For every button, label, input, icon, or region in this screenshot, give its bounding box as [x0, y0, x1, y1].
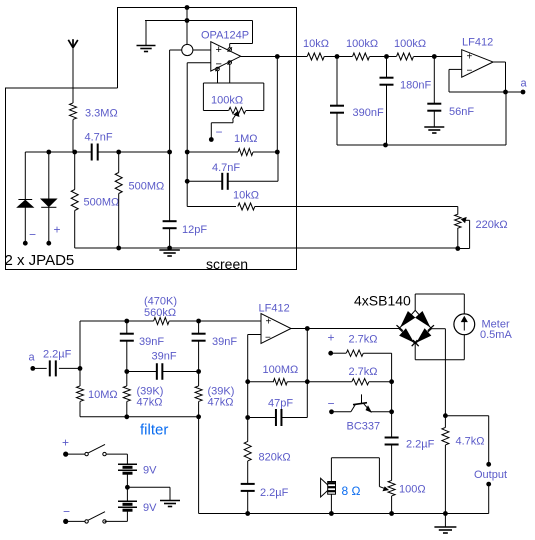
- svg-text:220kΩ: 220kΩ: [476, 219, 508, 231]
- svg-text:500MΩ: 500MΩ: [129, 181, 165, 193]
- svg-text:OPA124P: OPA124P: [201, 30, 249, 42]
- svg-text:BC337: BC337: [347, 421, 381, 433]
- svg-text:10kΩ: 10kΩ: [233, 190, 259, 202]
- svg-text:2.7kΩ: 2.7kΩ: [349, 334, 378, 346]
- svg-text:+: +: [62, 436, 69, 450]
- svg-text:100kΩ: 100kΩ: [211, 95, 243, 107]
- svg-text:47pF: 47pF: [268, 398, 293, 410]
- svg-text:10MΩ: 10MΩ: [88, 389, 118, 401]
- svg-text:100Ω: 100Ω: [399, 484, 426, 496]
- svg-text:+: +: [467, 52, 473, 63]
- svg-text:12pF: 12pF: [182, 224, 207, 236]
- svg-text:screen: screen: [206, 256, 248, 272]
- svg-text:100kΩ: 100kΩ: [346, 38, 378, 50]
- svg-text:39nF: 39nF: [212, 336, 237, 348]
- svg-text:500MΩ: 500MΩ: [84, 197, 120, 209]
- svg-text:180nF: 180nF: [400, 80, 431, 92]
- svg-text:2.2µF: 2.2µF: [260, 487, 289, 499]
- svg-text:2.2µF: 2.2µF: [43, 349, 72, 361]
- svg-text:100kΩ: 100kΩ: [394, 38, 426, 50]
- svg-text:+: +: [216, 44, 222, 56]
- svg-text:390nF: 390nF: [353, 107, 384, 119]
- svg-text:47kΩ: 47kΩ: [208, 397, 234, 409]
- svg-text:−: −: [328, 397, 335, 411]
- svg-text:56nF: 56nF: [449, 106, 474, 118]
- svg-text:−: −: [265, 333, 271, 344]
- svg-text:4.7kΩ: 4.7kΩ: [456, 436, 485, 448]
- svg-text:560kΩ: 560kΩ: [144, 307, 176, 319]
- svg-text:39nF: 39nF: [152, 351, 177, 363]
- svg-text:100MΩ: 100MΩ: [263, 364, 299, 376]
- svg-text:a: a: [28, 352, 35, 364]
- svg-text:4xSB140: 4xSB140: [354, 293, 411, 309]
- svg-text:−: −: [63, 505, 70, 519]
- svg-text:4.7nF: 4.7nF: [85, 132, 113, 144]
- svg-text:2.2µF: 2.2µF: [406, 439, 435, 451]
- svg-text:1MΩ: 1MΩ: [234, 133, 258, 145]
- svg-text:−: −: [29, 228, 36, 242]
- svg-text:(470K): (470K): [144, 296, 177, 308]
- svg-text:47kΩ: 47kΩ: [137, 397, 163, 409]
- svg-text:8 Ω: 8 Ω: [342, 484, 361, 498]
- svg-text:+: +: [266, 317, 272, 328]
- svg-text:LF412: LF412: [462, 37, 493, 49]
- svg-text:2.7kΩ: 2.7kΩ: [349, 366, 378, 378]
- svg-text:4.7nF: 4.7nF: [212, 162, 240, 174]
- svg-text:9V: 9V: [143, 465, 157, 477]
- svg-text:0.5mA: 0.5mA: [480, 329, 512, 341]
- svg-text:3.3MΩ: 3.3MΩ: [85, 108, 118, 120]
- svg-text:+: +: [54, 223, 61, 237]
- svg-text:−: −: [467, 66, 473, 77]
- svg-text:−: −: [216, 59, 222, 71]
- svg-text:filter: filter: [140, 422, 168, 439]
- svg-text:Output: Output: [474, 469, 507, 481]
- svg-text:9V: 9V: [143, 502, 157, 514]
- svg-text:LF412: LF412: [259, 303, 290, 315]
- svg-text:2 x JPAD5: 2 x JPAD5: [5, 252, 75, 269]
- svg-text:a: a: [520, 78, 527, 90]
- svg-text:820kΩ: 820kΩ: [259, 452, 291, 464]
- svg-text:+: +: [328, 331, 335, 345]
- svg-text:39nF: 39nF: [139, 336, 164, 348]
- svg-text:10kΩ: 10kΩ: [303, 38, 329, 50]
- svg-text:−: −: [216, 125, 223, 139]
